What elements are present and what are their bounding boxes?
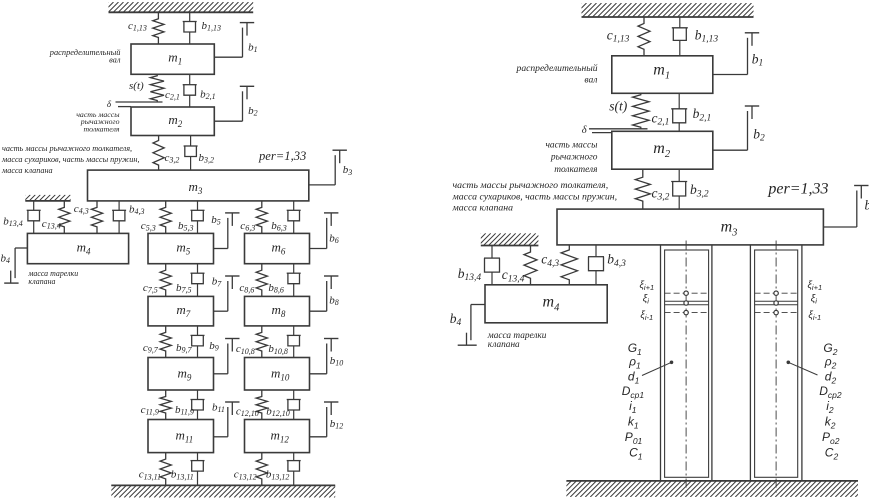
svg-text:масса сухариков, часть массы п: масса сухариков, часть массы пружин,: [452, 191, 618, 202]
svg-text:масса клапана: масса клапана: [1, 166, 53, 175]
svg-text:рычажного: рычажного: [550, 153, 598, 163]
svg-text:вал: вал: [584, 75, 597, 86]
svg-text:b3: b3: [865, 198, 869, 215]
svg-text:толкателя: толкателя: [554, 165, 597, 175]
svg-text:вал: вал: [109, 55, 121, 64]
svg-text:s(t): s(t): [129, 80, 144, 92]
svg-text:масса сухариков, часть массы п: масса сухариков, часть массы пружин,: [1, 155, 140, 164]
svg-text:per=1,33: per=1,33: [258, 149, 306, 163]
svg-text:s(t): s(t): [609, 99, 628, 114]
svg-text:клапана: клапана: [488, 340, 520, 350]
svg-text:толкателя: толкателя: [83, 124, 119, 133]
svg-text:распределительный: распределительный: [516, 63, 598, 74]
svg-text:часть массы: часть массы: [545, 141, 598, 151]
svg-text:часть массы рычажного толкател: часть массы рычажного толкателя,: [453, 180, 609, 191]
svg-text:масса клапана: масса клапана: [452, 203, 514, 214]
svg-text:часть массы рычажного толкател: часть массы рычажного толкателя,: [2, 144, 132, 153]
svg-text:клапана: клапана: [28, 277, 55, 286]
svg-text:per=1,33: per=1,33: [767, 180, 828, 197]
